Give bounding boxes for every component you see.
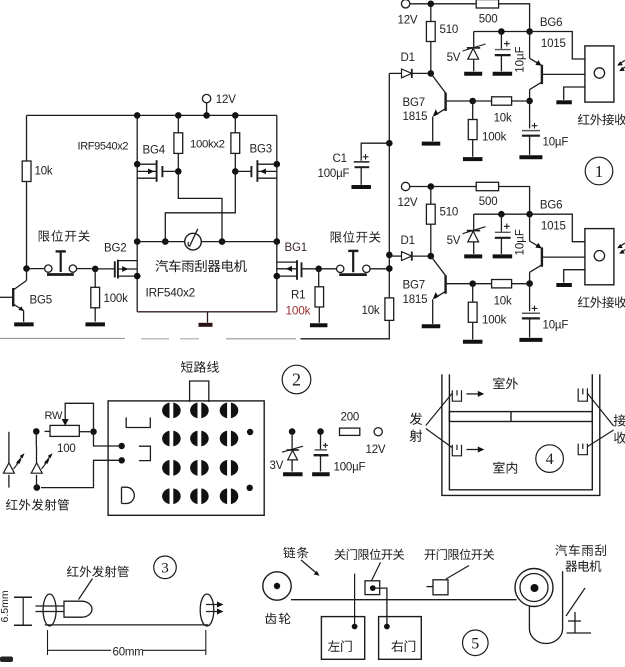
motor box 汽车雨刮器电机: [137, 242, 277, 312]
svg-text:BG6: BG6: [540, 200, 562, 212]
label 齿轮: [265, 613, 290, 625]
svg-text:5V: 5V: [447, 235, 461, 247]
tube left ellipse: [36, 594, 64, 626]
wire right vertical x277: [274, 115, 281, 241]
label 关门限位开关: [335, 549, 405, 581]
svg-text:100k: 100k: [482, 132, 507, 144]
capacitor 10uF filter 1: [495, 32, 511, 72]
ground zener 2: [464, 254, 482, 258]
ground IR module 1: [556, 100, 572, 104]
label 接收 vertical: [614, 414, 625, 443]
callout number 5: [463, 630, 489, 656]
transistor BG5: [0, 269, 52, 322]
wire pointer to left door: [352, 574, 358, 630]
mosfet BG2 IRF540: [95, 243, 137, 279]
sensor bracket bottom-left: [452, 445, 461, 456]
svg-text:D1: D1: [401, 52, 415, 64]
svg-text:12V: 12V: [398, 197, 418, 209]
svg-text:10µF: 10µF: [515, 46, 527, 72]
ground C1: [351, 185, 371, 189]
label 10uF rotated 1: [515, 46, 527, 72]
label 开门限位开关: [425, 549, 495, 579]
svg-text:IRF9540x2: IRF9540x2: [78, 141, 129, 153]
terminal 12V main: [202, 94, 236, 116]
arrow indoor: [467, 447, 485, 453]
transistor BG6 1015 2: [526, 200, 585, 287]
IR receiver module 2: [530, 214, 614, 285]
wire 5V node receiver 1: [474, 28, 533, 35]
svg-text:C1: C1: [333, 153, 347, 165]
jumper stub box: [190, 381, 209, 402]
svg-text:100µF: 100µF: [318, 168, 350, 180]
sensor bracket top-right: [578, 388, 587, 401]
tube right ellipse: [200, 594, 223, 626]
resistor 100k receiver 2: [468, 284, 506, 340]
door frame outer: [442, 374, 600, 495]
door frame inner: [449, 374, 592, 490]
switch open-door box: [427, 580, 449, 595]
dimension 6.5mm: [0, 590, 32, 625]
wire 5V node receiver 2: [474, 211, 533, 218]
svg-text:1015: 1015: [541, 221, 566, 233]
node dots motor wire: [134, 238, 280, 245]
svg-text:BG1: BG1: [285, 242, 307, 254]
capacitor C1 100uF: [318, 143, 390, 185]
svg-text:1015: 1015: [541, 38, 566, 50]
wire middle vertical x389: [386, 73, 393, 298]
dimension 60mm: [48, 630, 206, 658]
LED bullet body: [64, 601, 92, 617]
label IRF9540x2: [78, 141, 129, 153]
node dot left rail: [23, 265, 30, 272]
capacitor 10uF filter 2: [495, 214, 511, 254]
wire 500 to 5V node 1: [499, 4, 530, 32]
resistor R1 100k: [286, 269, 324, 323]
motor pointer: [566, 588, 585, 616]
resistor 500 receiver 1: [476, 0, 498, 25]
svg-text:RW: RW: [45, 410, 64, 422]
svg-text:1815: 1815: [403, 294, 428, 306]
resistor 10k right: [362, 298, 394, 321]
callout number 4: [536, 445, 564, 473]
capacitor 10uF out 2: [522, 284, 568, 338]
sensor bracket bottom-right: [578, 444, 587, 455]
arrow outdoor: [467, 391, 485, 397]
label 限位开关 left: [39, 230, 90, 242]
resistor 100k left: [91, 269, 128, 322]
chain belt line: [291, 599, 517, 601]
resistor 10k receiver 1: [473, 97, 530, 125]
wire gate crossover B: [165, 171, 235, 241]
svg-text:BG7: BG7: [403, 280, 425, 292]
corner mark: [0, 657, 13, 663]
resistor 10k receiver 2: [473, 280, 530, 308]
svg-text:100k: 100k: [104, 293, 129, 305]
label 室内: [493, 462, 517, 474]
callout number 2: [282, 365, 311, 394]
diode D1 receiver 1: [389, 52, 434, 78]
svg-text:100µF: 100µF: [334, 461, 366, 473]
svg-text:1: 1: [595, 162, 604, 181]
mark D shape: [122, 487, 135, 503]
ground cap 2: [493, 254, 513, 258]
terminal 12V receiver 2: [398, 182, 418, 209]
node dot BG2 source: [134, 273, 141, 280]
svg-text:510: 510: [440, 207, 459, 219]
LED 红外发射管 2: [31, 446, 52, 488]
svg-text:200: 200: [341, 411, 360, 423]
svg-text:BG5: BG5: [30, 295, 52, 307]
svg-text:BG3: BG3: [250, 144, 272, 156]
wire left vertical x137: [134, 115, 141, 241]
switch left limit 限位开关: [27, 251, 92, 274]
ground zener 1: [464, 72, 482, 76]
mosfet BG3 IRF9540: [235, 144, 276, 182]
IR arrows 2: [617, 243, 625, 254]
resistor 510 receiver 1: [426, 4, 458, 74]
svg-text:IRF540x2: IRF540x2: [146, 286, 196, 300]
mosfet BG4 IRF9540: [137, 145, 178, 182]
label 红外发射管 section2: [6, 499, 69, 511]
diode D1 receiver 2: [389, 235, 434, 261]
label 链条: [283, 547, 319, 576]
sensor bracket top-left: [452, 390, 461, 401]
svg-text:12V: 12V: [398, 14, 418, 26]
separator line: [0, 337, 296, 339]
svg-text:10k: 10k: [362, 305, 380, 317]
label 短路线: [181, 361, 219, 373]
ground cap out 1: [519, 155, 542, 159]
svg-text:BG4: BG4: [143, 145, 166, 157]
terminal 12V section2: [366, 428, 386, 457]
capacitor 10uF out 1: [522, 101, 568, 155]
node dots on top bus: [134, 112, 239, 119]
ground 100k 2: [463, 340, 483, 344]
zener 3V: [270, 428, 304, 472]
svg-text:10µF: 10µF: [543, 319, 569, 331]
wire gate crossover A: [178, 171, 222, 241]
callout number 3: [154, 556, 177, 579]
mosfet BG1 IRF540: [277, 242, 319, 280]
ground motor box: [199, 312, 213, 325]
transistor BG6 1015 1: [526, 17, 585, 104]
svg-text:BG2: BG2: [104, 243, 126, 255]
zener 5V receiver 2: [447, 214, 486, 254]
svg-text:12V: 12V: [366, 444, 386, 456]
ground 100uF: [312, 472, 330, 476]
ground cap 1: [493, 72, 513, 76]
svg-text:BG7: BG7: [403, 97, 425, 109]
ground BG7 2: [422, 324, 441, 328]
svg-text:500: 500: [479, 196, 498, 208]
svg-text:10k: 10k: [35, 166, 53, 178]
label 100kx2: [190, 139, 225, 151]
ground BG7 1: [422, 142, 441, 146]
ground 3V zener: [283, 472, 303, 476]
wire box input B: [34, 457, 125, 491]
svg-text:100k: 100k: [286, 304, 311, 318]
wire left rail: [26, 115, 28, 161]
wire 10k to common: [301, 320, 390, 338]
terminal 12V receiver 1: [398, 0, 418, 26]
resistor 500 receiver 2: [476, 182, 498, 208]
resistor 100kx2 b: [231, 115, 240, 174]
svg-text:510: 510: [440, 24, 459, 36]
transistor BG7 1815 1: [403, 73, 477, 141]
svg-text:1815: 1815: [403, 111, 428, 123]
pads 4x3: [162, 402, 238, 505]
wire RW left to LED: [36, 431, 50, 446]
left door box 左门: [321, 617, 364, 660]
svg-text:3V: 3V: [270, 460, 284, 472]
bracket mark b: [139, 446, 151, 460]
svg-text:60mm: 60mm: [113, 646, 144, 658]
label 限位开关 right: [331, 231, 381, 243]
svg-text:100k: 100k: [482, 314, 507, 326]
label 发射 vertical: [410, 413, 423, 442]
right door box 右门: [379, 617, 422, 660]
LED 红外发射管 1: [3, 432, 24, 488]
wire box input A: [94, 432, 125, 449]
IR receiver module 1: [530, 32, 614, 103]
wire receiver 2 supply bus: [410, 183, 476, 190]
motor body section5: [529, 571, 562, 643]
svg-text:2: 2: [292, 370, 301, 390]
resistor 510 receiver 2: [426, 187, 458, 257]
receive pointer lines: [588, 394, 614, 447]
svg-text:100: 100: [57, 443, 76, 455]
svg-text:10µF: 10µF: [515, 229, 527, 255]
door panels: [449, 412, 592, 422]
svg-text:4: 4: [546, 451, 554, 468]
svg-text:R1: R1: [291, 290, 305, 302]
svg-text:D1: D1: [401, 235, 415, 247]
wire 500 to 5V node 2: [499, 187, 530, 215]
ground BG5: [14, 322, 34, 326]
label 红外接收 1: [578, 114, 625, 126]
matrix board box: [108, 401, 264, 515]
svg-text:BG6: BG6: [540, 17, 562, 29]
zener 5V receiver 1: [447, 32, 486, 72]
svg-text:3: 3: [161, 560, 169, 576]
gear: [263, 572, 291, 600]
bracket mark a: [126, 417, 150, 427]
node dots BG1: [274, 266, 323, 280]
svg-text:10µF: 10µF: [543, 137, 569, 149]
resistor 200: [340, 411, 360, 435]
resistor 100k receiver 1: [468, 101, 506, 157]
svg-text:500: 500: [479, 14, 498, 26]
wire left rail lower: [26, 182, 28, 269]
ground R1: [310, 323, 328, 327]
ground cap out 2: [519, 338, 542, 342]
wire top supply bus: [27, 114, 277, 116]
capacitor 100uF section2: [314, 428, 366, 473]
potentiometer RW 100: [33, 403, 97, 455]
svg-text:10k: 10k: [494, 113, 512, 125]
tube bottom line: [45, 624, 208, 626]
label 红外发射管 section3: [67, 566, 129, 600]
label 室外: [493, 377, 518, 389]
wire motor top: [137, 241, 277, 243]
resistor 10k left: [22, 161, 53, 182]
svg-text:12V: 12V: [216, 94, 236, 106]
IR arrows 1: [617, 60, 625, 71]
transistor BG7 1815 2: [403, 256, 477, 324]
ground 100k left: [85, 322, 105, 326]
ground IR module 2: [556, 283, 572, 287]
label 红外接收 2: [578, 296, 625, 308]
resistor 100kx2 a: [174, 115, 183, 174]
switch close-door box: [365, 581, 380, 595]
svg-text:5V: 5V: [447, 52, 461, 64]
svg-text:100kx2: 100kx2: [190, 139, 225, 151]
svg-text:6.5mm: 6.5mm: [0, 590, 11, 622]
svg-text:10k: 10k: [494, 295, 512, 307]
switch right limit 限位开关: [319, 251, 390, 275]
motor symbol: [185, 229, 202, 250]
node dots inside box: [247, 429, 254, 491]
node dot BG2 gate: [92, 266, 99, 273]
svg-text:5: 5: [471, 635, 479, 652]
emit pointer lines: [426, 394, 452, 448]
motor terminal mark: [567, 612, 592, 633]
wire receiver 1 supply bus: [410, 1, 476, 8]
ground 100k 1: [463, 157, 483, 161]
wire close switch to left door: [373, 588, 390, 629]
label 汽车雨刮器电机 section5: [555, 544, 606, 571]
pulley wheel: [515, 569, 553, 607]
callout number 1: [585, 157, 613, 185]
label 10uF rotated 2: [515, 229, 527, 255]
